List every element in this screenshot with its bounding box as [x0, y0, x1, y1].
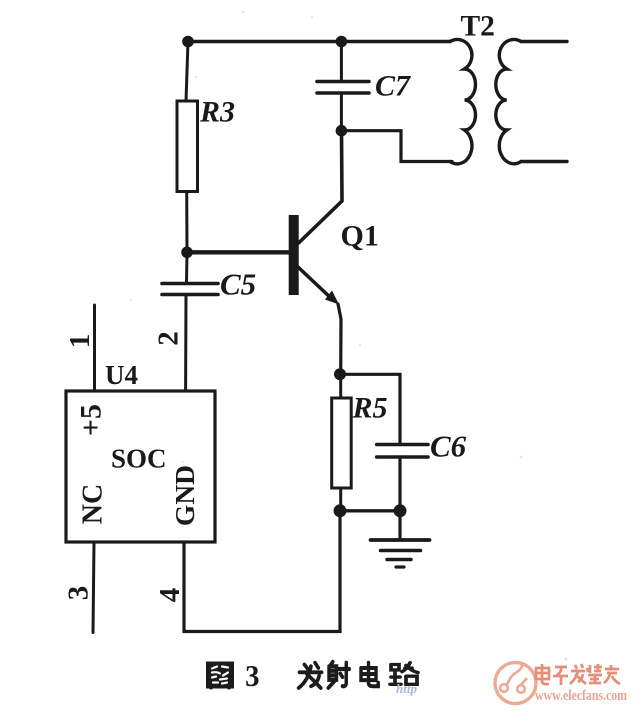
svg-text:Q1: Q1 [341, 220, 379, 253]
svg-text:+5: +5 [75, 404, 108, 436]
svg-text:www.elecfans.com: www.elecfans.com [535, 687, 628, 704]
svg-text:GND: GND [169, 465, 200, 526]
svg-text:4: 4 [154, 588, 186, 603]
svg-text:2: 2 [153, 331, 185, 346]
svg-text:C5: C5 [220, 267, 256, 302]
svg-text:R3: R3 [199, 96, 235, 129]
svg-text:NC: NC [78, 484, 109, 524]
svg-text:http: http [396, 681, 417, 696]
svg-text:C6: C6 [430, 429, 467, 464]
svg-text:SOC: SOC [111, 444, 167, 474]
svg-text:U4: U4 [105, 360, 138, 390]
svg-text:T2: T2 [461, 11, 495, 43]
svg-text:1: 1 [64, 334, 96, 349]
svg-text:3: 3 [245, 659, 259, 693]
svg-text:C7: C7 [375, 70, 411, 103]
svg-text:R5: R5 [352, 392, 388, 425]
svg-text:3: 3 [63, 586, 95, 601]
